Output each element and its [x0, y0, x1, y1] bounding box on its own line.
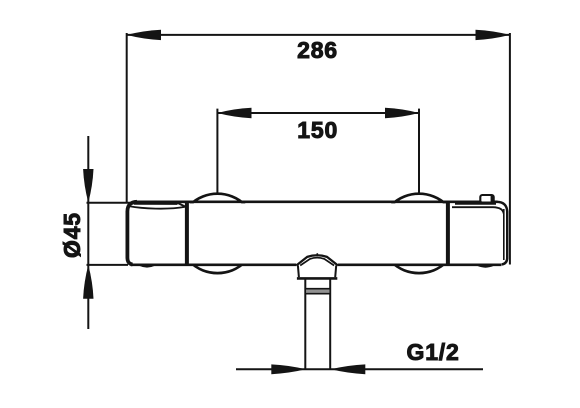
right handle button: [480, 195, 493, 203]
left handle top band: [134, 202, 178, 205]
right handle body boundary: [446, 202, 450, 264]
right handle top band: [455, 202, 496, 205]
right handle inner right edge: [503, 209, 505, 260]
outlet dome outer: [296, 255, 338, 265]
body top line: [136, 201, 498, 204]
dim 150 line: [217, 112, 419, 114]
right handle outline: [497, 202, 507, 265]
svg-text:286: 286: [297, 37, 338, 63]
pipe thread band fill: [306, 289, 329, 293]
pipe thread band bottom edge: [305, 293, 330, 295]
dim dia45 bottom arrow: [83, 265, 93, 299]
dim dia45 top extension line: [87, 202, 131, 204]
dim G12 line: [236, 368, 483, 370]
dim 286 right arrow: [476, 30, 511, 40]
escutcheon circle left: [178, 194, 257, 273]
escutcheon circle right: [379, 194, 458, 273]
pipe thread band top edge: [305, 288, 330, 290]
svg-text:Ø45: Ø45: [59, 212, 85, 258]
dim 150 right arrow: [385, 108, 419, 118]
outlet collar bottom: [297, 277, 337, 280]
pipe left side: [304, 278, 306, 369]
dim 150 left arrow: [217, 108, 251, 118]
right handle bottom bump: [478, 265, 494, 267]
dim 286 line: [127, 34, 511, 36]
dim G12 left arrow: [271, 364, 306, 374]
body cover: [168, 203, 468, 263]
dim dia45 bottom extension line: [87, 264, 129, 266]
pipe right side: [329, 278, 331, 369]
right handle inner top line: [452, 207, 504, 213]
dim 286 left arrow: [127, 30, 162, 40]
outlet collar left side: [298, 266, 299, 278]
left handle chamfer: [176, 202, 186, 207]
outlet dome peak tick: [316, 253, 318, 256]
body bottom line right: [338, 263, 502, 266]
dim 150 left extension line: [216, 109, 218, 194]
dim G12 right arrow: [331, 364, 366, 374]
outlet dome inner: [300, 258, 334, 266]
dim dia45 line: [87, 136, 89, 329]
left handle inner top line: [130, 206, 185, 208]
dim 286 right extension line: [509, 33, 511, 265]
right handle button right tick: [491, 196, 493, 202]
left handle body boundary: [185, 202, 189, 264]
body bottom line left: [131, 263, 297, 266]
dim 150 right extension line: [418, 109, 420, 194]
dim 286 left extension line: [126, 33, 128, 203]
outlet collar right side: [335, 266, 336, 278]
svg-text:150: 150: [297, 117, 338, 143]
dim dia45 top arrow: [83, 169, 93, 203]
left handle outline: [127, 202, 137, 265]
svg-text:G1/2: G1/2: [407, 339, 460, 365]
left handle bottom bump: [140, 265, 155, 267]
